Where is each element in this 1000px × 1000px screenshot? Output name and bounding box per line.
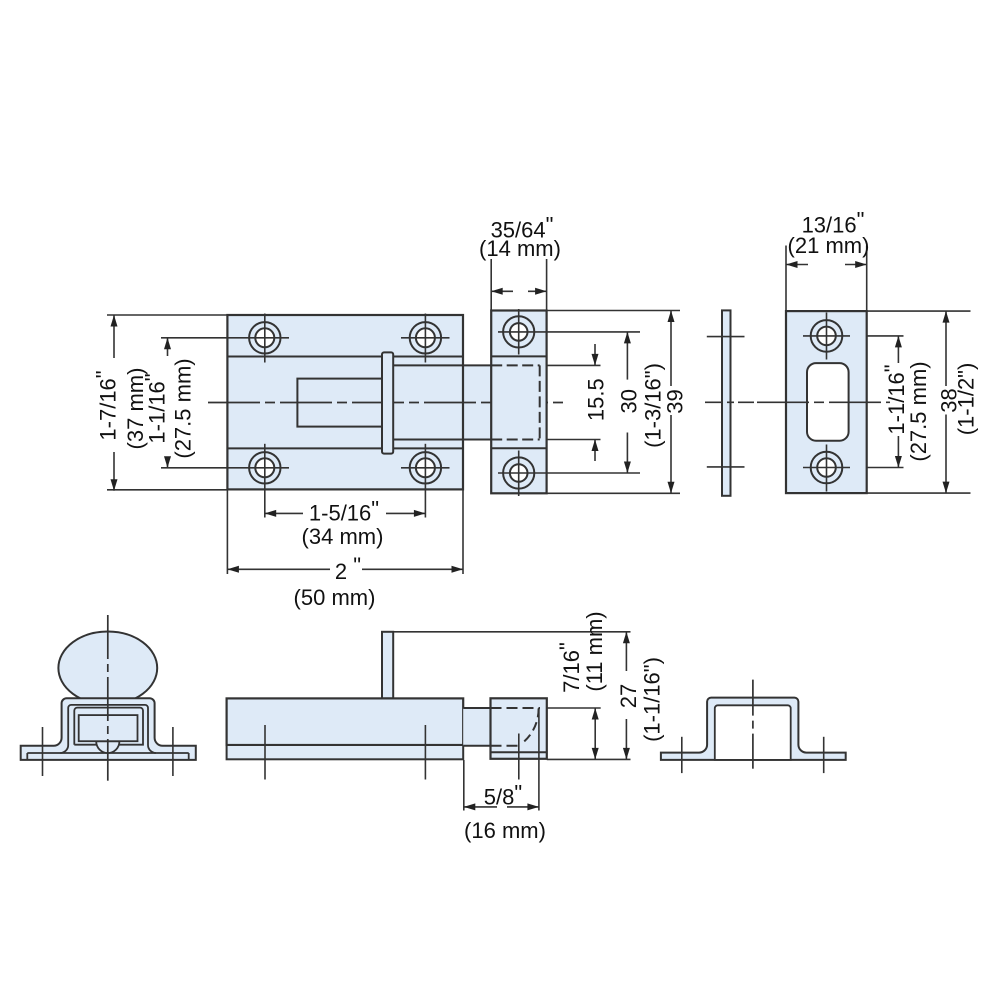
screw hole top-right: [410, 322, 441, 353]
bracket outer silhouette: [21, 698, 196, 760]
inner bolt housing rect: [79, 715, 138, 741]
knob bar: [382, 352, 393, 453]
dimension 5/8 (16mm): [463, 760, 465, 811]
strike hole bottom: [811, 452, 843, 484]
svg-text:(1-1/2"): (1-1/2"): [954, 363, 979, 436]
body side: [227, 698, 464, 745]
knob stem: [382, 632, 393, 699]
dimension 1-1/16 (27.5mm) right: [867, 335, 904, 337]
bolt shaft lines: [393, 364, 491, 366]
dimension 1-7/16 (37mm) left: [107, 314, 227, 316]
hidden bolt tip arc: [520, 708, 538, 744]
svg-text:7/16": 7/16": [555, 642, 584, 693]
svg-text:1-1/16": 1-1/16": [141, 373, 170, 443]
bracket outer: [661, 698, 846, 760]
strike side (thin plate): [722, 310, 731, 495]
svg-text:(21 mm): (21 mm): [788, 233, 870, 258]
guide fold lines: [491, 355, 546, 357]
screw ticks: [42, 727, 44, 776]
svg-text:1-1/16": 1-1/16": [880, 364, 909, 434]
svg-text:5/8": 5/8": [484, 781, 522, 810]
base plate top line: [27, 752, 188, 754]
screw hole bottom-left: [249, 452, 280, 483]
main plate fold line bottom: [227, 447, 463, 449]
dimension 13/16 (21mm) top: [785, 246, 787, 312]
main plate fold line top: [227, 356, 463, 358]
slider rectangle: [297, 379, 382, 427]
dimension 35/64 (14mm) top: [490, 259, 492, 311]
strike hole top: [811, 320, 843, 352]
svg-text:(27.5 mm): (27.5 mm): [171, 358, 196, 458]
ext line from block bottom right: [547, 758, 631, 760]
svg-text:1-7/16": 1-7/16": [92, 370, 121, 440]
dimension 2" (50mm) bottom: [226, 489, 228, 574]
dimension 27 (1-1/16"): [625, 632, 627, 671]
vertical centerline: [752, 680, 754, 769]
guide hole cross lines + ext lines for 30: [498, 331, 640, 333]
ext lines right for 15.5: [547, 364, 601, 366]
bracket inner wall line: [60, 705, 156, 753]
screw ticks: [264, 725, 266, 780]
sleeve: [74, 708, 143, 745]
dimension 30 (1-3/16"): [626, 332, 628, 380]
guide block side: [491, 698, 547, 759]
strike plate face: [786, 311, 867, 493]
strike cutout: [807, 363, 849, 441]
screw hole bottom-right: [410, 452, 441, 483]
svg-text:1-5/16": 1-5/16": [309, 496, 379, 525]
guide block inner line: [491, 751, 547, 753]
guide hole top: [503, 316, 534, 347]
svg-text:27: 27: [616, 684, 641, 708]
svg-text:(11 mm): (11 mm): [582, 611, 607, 691]
svg-text:(27.5 mm): (27.5 mm): [906, 361, 931, 461]
vertical centerline: [107, 615, 109, 781]
main plate body: [227, 315, 463, 489]
bolt shaft side fill: [463, 708, 490, 746]
dimension 7/16 (11mm): [594, 708, 596, 759]
thin plate centerline: [705, 401, 754, 403]
bolt end semicircle: [96, 741, 119, 753]
base plate end stubs: [26, 753, 28, 759]
svg-text:15.5: 15.5: [584, 378, 609, 421]
screw ticks: [681, 737, 683, 773]
strike hole crosses: [803, 335, 850, 337]
ext line from stem top: [393, 631, 630, 633]
svg-text:(1-1/16"): (1-1/16"): [640, 657, 665, 742]
svg-text:(34 mm): (34 mm): [302, 524, 384, 549]
svg-text:30: 30: [617, 389, 642, 413]
ext lines right for 39: [547, 310, 680, 312]
knob ellipse: [58, 632, 157, 705]
svg-text:39: 39: [663, 389, 688, 413]
screw hole top-left: [249, 322, 280, 353]
horizontal centerline: [208, 402, 567, 404]
dimension 38 (1-1/2") right: [867, 310, 971, 312]
base plate side: [227, 745, 464, 759]
dimension 1-1/16 (27.5mm) left inner: [167, 338, 169, 356]
guide plate: [491, 311, 546, 494]
svg-text:(50 mm): (50 mm): [294, 585, 376, 610]
hidden bolt lines in block: [491, 707, 541, 709]
svg-text:(14 mm): (14 mm): [479, 236, 561, 261]
hole cross lines: [161, 337, 289, 339]
dimension 15.5: [594, 344, 596, 365]
bolt shaft between plates (fill): [463, 365, 491, 439]
bolt shaft lines: [463, 707, 490, 709]
svg-text:(16 mm): (16 mm): [464, 818, 546, 843]
dimension 39: [670, 311, 672, 387]
guide hole bottom: [503, 457, 534, 488]
bracket inner (mouth): [715, 705, 791, 760]
strike centerline: [757, 401, 890, 403]
hidden bolt in guide (dashed): [491, 364, 540, 366]
thin plate ticks: [707, 336, 745, 338]
dimension 1-5/16 (34mm) bottom: [265, 512, 303, 514]
ext line from shaft top right: [547, 707, 601, 709]
